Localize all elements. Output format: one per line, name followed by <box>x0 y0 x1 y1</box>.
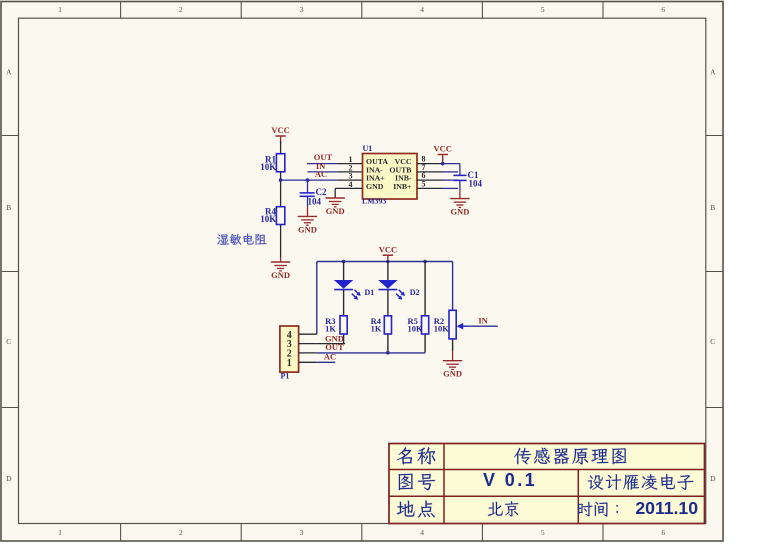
svg-text:IN: IN <box>478 315 488 325</box>
svg-text:C2: C2 <box>316 187 327 197</box>
svg-text:10K: 10K <box>260 214 276 224</box>
svg-text:LM393: LM393 <box>362 197 386 206</box>
svg-text:C: C <box>710 337 715 346</box>
svg-text:VCC: VCC <box>271 125 289 135</box>
svg-text:10K: 10K <box>434 323 450 333</box>
svg-text:10K: 10K <box>260 162 276 172</box>
svg-text:GND: GND <box>271 270 290 280</box>
svg-text:D1: D1 <box>365 288 375 297</box>
svg-text:GND: GND <box>450 207 469 217</box>
svg-text:D: D <box>6 474 12 483</box>
svg-text:B: B <box>6 203 11 212</box>
svg-text:5: 5 <box>541 528 545 537</box>
svg-text:INB+: INB+ <box>393 182 412 191</box>
svg-text:6: 6 <box>661 528 665 537</box>
svg-text:104: 104 <box>308 197 322 207</box>
svg-text:5: 5 <box>422 179 426 188</box>
svg-text:1: 1 <box>58 5 62 14</box>
svg-text:GND: GND <box>366 182 384 191</box>
svg-text:OUT: OUT <box>325 342 344 352</box>
svg-text:AC: AC <box>324 352 336 362</box>
svg-text:V 0.1: V 0.1 <box>483 470 537 490</box>
svg-text:A: A <box>710 68 716 77</box>
svg-text:GND: GND <box>298 224 317 234</box>
svg-text:B: B <box>710 203 715 212</box>
svg-text:3: 3 <box>300 5 304 14</box>
svg-text:2011.10: 2011.10 <box>635 498 698 518</box>
svg-text:D2: D2 <box>410 288 420 297</box>
svg-text:5: 5 <box>541 5 545 14</box>
svg-text:GND: GND <box>443 369 462 379</box>
svg-text:1: 1 <box>287 358 292 369</box>
svg-text:C: C <box>6 337 11 346</box>
svg-text:2: 2 <box>179 5 183 14</box>
svg-text:1: 1 <box>58 528 62 537</box>
svg-text:P1: P1 <box>281 371 290 380</box>
svg-text:1K: 1K <box>371 323 382 333</box>
svg-text:A: A <box>6 68 12 77</box>
svg-text:U1: U1 <box>363 144 373 153</box>
svg-text:10K: 10K <box>408 323 424 333</box>
svg-text:3: 3 <box>300 528 304 537</box>
svg-text:4: 4 <box>420 5 424 14</box>
svg-text:VCC: VCC <box>433 144 451 154</box>
svg-text:4: 4 <box>420 528 424 537</box>
svg-text:GND: GND <box>326 206 345 216</box>
svg-text:1K: 1K <box>325 323 336 333</box>
svg-text:2: 2 <box>179 528 183 537</box>
svg-text:VCC: VCC <box>379 244 397 254</box>
svg-text:6: 6 <box>661 5 665 14</box>
svg-text:D: D <box>710 474 716 483</box>
svg-text:AC: AC <box>315 169 327 179</box>
svg-text:104: 104 <box>469 178 483 188</box>
